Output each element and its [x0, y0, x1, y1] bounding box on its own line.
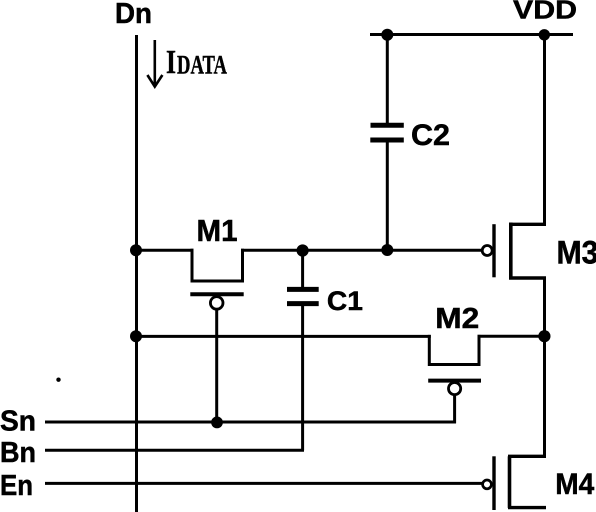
transistor M4 [483, 456, 546, 510]
scan speck [56, 378, 60, 382]
node junction M1 gate / Sn [211, 417, 223, 429]
wire En line [45, 482, 482, 485]
svg-text:Bn: Bn [0, 437, 36, 469]
label Dn [115, 0, 152, 30]
label M2 [435, 303, 479, 335]
svg-text:M3: M3 [557, 234, 596, 270]
wire VDD to M3 source [543, 35, 546, 226]
label VDD [513, 0, 577, 25]
transistor M2 [428, 335, 481, 395]
label Bn [0, 437, 36, 469]
wire gate net M1 to M3 gate [241, 249, 482, 252]
label C1 [327, 286, 363, 316]
label IDATA [166, 44, 227, 81]
wire VDD rail [370, 33, 573, 36]
label Sn [0, 406, 36, 438]
wire Bn line [45, 449, 304, 452]
transistor M3 [482, 223, 546, 279]
node junction C2 bottom [381, 244, 393, 256]
wire M2 gate lead down [453, 395, 456, 424]
capacitor C1 [287, 289, 319, 303]
wire C2 bottom lead [386, 143, 389, 251]
svg-text:M1: M1 [197, 213, 238, 248]
svg-text:M2: M2 [435, 303, 479, 335]
transistor M1 [190, 249, 243, 309]
wire bus net Dn to M2 [136, 335, 431, 338]
node junction Dn / gate net [130, 244, 142, 256]
label C2 [411, 119, 450, 152]
wire Sn select line [45, 421, 456, 424]
wire bus net M2 to right rail [478, 335, 547, 338]
capacitor C2 [370, 125, 404, 140]
svg-text:Sn: Sn [0, 406, 36, 438]
node junction Dn / bus net [130, 330, 142, 342]
label M1 [197, 213, 238, 248]
svg-text:Dn: Dn [115, 0, 152, 30]
wire Dn data line (vertical) [135, 35, 138, 512]
node junction VDD / M3 source [539, 29, 550, 40]
arrow IDATA current direction [147, 40, 162, 87]
node junction C1 top [297, 244, 309, 256]
label M3 [557, 234, 596, 270]
wire M1 gate lead to Sn [215, 309, 218, 422]
svg-text:I: I [166, 44, 176, 81]
wire C1 bottom lead to Bn [301, 306, 304, 450]
label M4 [555, 468, 594, 501]
svg-text:M4: M4 [555, 468, 594, 501]
label En [0, 470, 33, 502]
wire M3 drain to M4 drain (right rail) [543, 277, 546, 458]
wire gate net Dn to M1 [136, 249, 194, 252]
svg-text:En: En [0, 470, 33, 502]
svg-text:VDD: VDD [513, 0, 577, 25]
wire C2 top lead [386, 35, 389, 124]
svg-text:C1: C1 [327, 286, 363, 316]
node junction VDD / C2 [381, 29, 393, 41]
svg-text:C2: C2 [411, 119, 450, 152]
svg-text:DATA: DATA [177, 51, 227, 80]
node junction M3 drain / M2 / M4 [538, 330, 550, 342]
wire C1 top lead [301, 250, 304, 287]
